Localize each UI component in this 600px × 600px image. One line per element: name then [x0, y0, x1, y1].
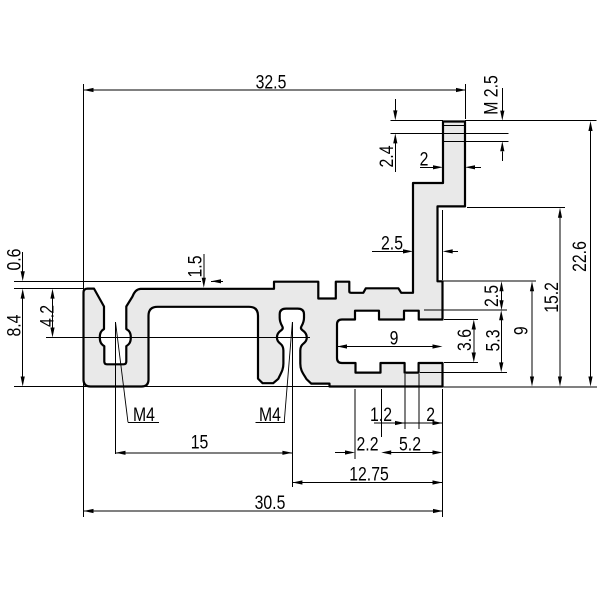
bottom extension across channel — [145, 385, 330, 387]
svg-text:1.5: 1.5 — [186, 256, 207, 278]
dim 15 — [116, 452, 293, 454]
dim 8.4 — [22, 298, 24, 377]
svg-text:2.5: 2.5 — [482, 285, 503, 307]
dim 4.2 — [52, 298, 54, 328]
svg-text:M4: M4 — [259, 405, 281, 426]
svg-text:2.4: 2.4 — [377, 145, 398, 167]
dim 2.5 arm — [372, 250, 404, 252]
svg-text:2: 2 — [426, 405, 435, 426]
svg-text:4.2: 4.2 — [37, 305, 58, 327]
dim 32.5 — [84, 89, 467, 91]
dims 1.2 and 2 — [374, 422, 443, 424]
svg-text:0.6: 0.6 — [5, 249, 26, 271]
svg-text:3.6: 3.6 — [455, 329, 476, 351]
profile cross-section body — [84, 122, 466, 387]
dim M2.5 — [465, 140, 509, 142]
dim 30.5 — [84, 510, 444, 512]
svg-text:M 2.5: M 2.5 — [481, 75, 502, 115]
svg-text:9: 9 — [511, 326, 532, 335]
svg-text:32.5: 32.5 — [256, 72, 287, 93]
svg-text:2.5: 2.5 — [381, 233, 403, 254]
svg-text:1.2: 1.2 — [370, 405, 392, 426]
svg-text:5.3: 5.3 — [484, 330, 505, 352]
svg-text:M4: M4 — [133, 405, 155, 426]
M2.5 thread lines — [443, 125, 465, 127]
svg-text:2.2: 2.2 — [357, 435, 379, 456]
svg-text:2: 2 — [420, 149, 429, 170]
svg-text:9: 9 — [390, 328, 399, 349]
dims 2.2 and 5.2 — [335, 452, 346, 454]
dim 9 slot — [337, 346, 433, 348]
dim 12.75 — [292, 482, 442, 484]
svg-text:12.75: 12.75 — [349, 465, 389, 486]
dim 0.6 — [14, 280, 201, 282]
dim 22.6 — [465, 119, 597, 121]
dim 2 head — [420, 166, 434, 168]
svg-text:8.4: 8.4 — [5, 314, 26, 336]
dim 2.4 — [390, 119, 443, 121]
svg-text:5.2: 5.2 — [399, 435, 421, 456]
dim 2.5 right — [443, 280, 537, 282]
dim 1.5 — [203, 254, 205, 278]
dim 9 right — [531, 291, 533, 377]
svg-text:15.2: 15.2 — [542, 282, 563, 313]
dim 5.3 — [420, 371, 507, 373]
svg-text:15: 15 — [191, 432, 209, 453]
svg-text:30.5: 30.5 — [255, 493, 286, 514]
M4 right label — [284, 322, 292, 422]
dim 3.6 — [444, 319, 478, 321]
dim 15.2 — [467, 207, 565, 209]
svg-text:22.6: 22.6 — [570, 241, 591, 272]
M4 left label — [116, 322, 129, 422]
